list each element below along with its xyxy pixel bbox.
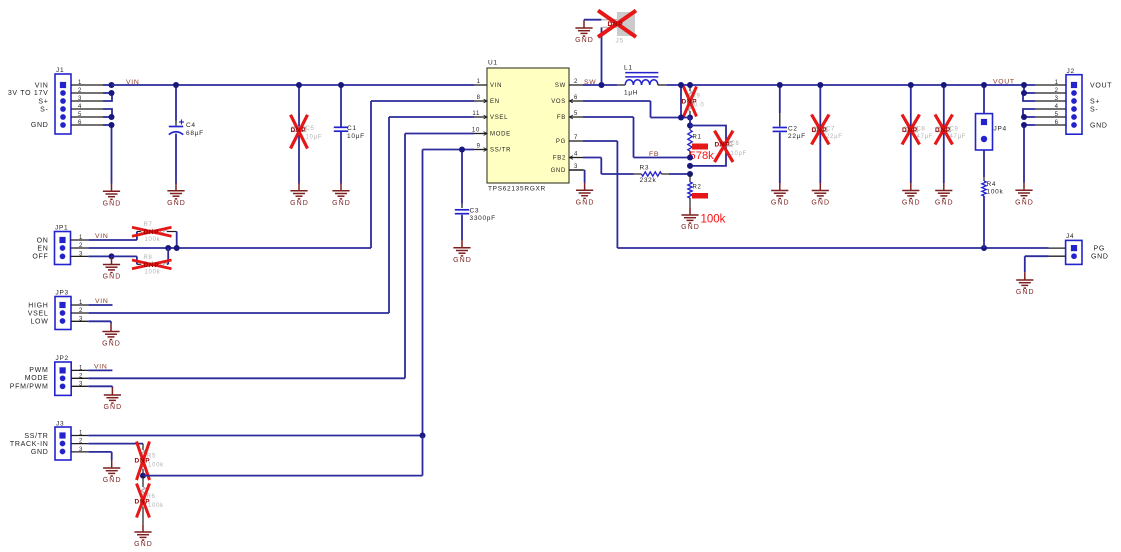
svg-text:R7: R7 xyxy=(144,222,153,228)
svg-text:S-: S- xyxy=(1090,107,1098,114)
connector J3 xyxy=(55,420,71,460)
wire SS/TR net J3 pin1 to U1 xyxy=(88,150,474,436)
svg-text:L1: L1 xyxy=(624,64,633,71)
JP2 pin labels xyxy=(10,367,49,391)
svg-text:GND: GND xyxy=(103,404,122,411)
wire MODE net JP2 pin2 to U1 xyxy=(88,134,474,379)
red value mask R2 xyxy=(692,193,708,199)
svg-text:DNP: DNP xyxy=(291,127,307,134)
wire JP3 pin1 VIN stub xyxy=(88,304,112,306)
svg-text:3V TO 17V: 3V TO 17V xyxy=(8,90,49,97)
DNP label R5 xyxy=(135,458,151,465)
svg-text:PG: PG xyxy=(556,139,566,145)
svg-text:SS/TR: SS/TR xyxy=(490,148,511,154)
svg-text:PG: PG xyxy=(1094,246,1106,253)
ground GND below C1 xyxy=(332,183,351,207)
svg-text:S+: S+ xyxy=(38,98,48,105)
wire JP1 pin3 to R8 xyxy=(112,256,137,264)
capacitor C7 DNP 22uF xyxy=(813,85,843,183)
wire J2 pin6 xyxy=(1024,124,1035,126)
svg-text:GND: GND xyxy=(332,200,351,207)
wire EN net JP1 pin2 to U1 xyxy=(88,101,474,248)
resistor R7 DNP 100k xyxy=(137,222,177,248)
junction dot C7 xyxy=(817,82,823,88)
U1 input arrows left pins xyxy=(484,99,487,151)
svg-text:GND: GND xyxy=(290,200,309,207)
red X over C9 xyxy=(935,115,953,145)
U1 input arrows right pins xyxy=(570,99,573,159)
resistor R9 DNP 0.0 xyxy=(688,85,705,118)
ground GND below C4 xyxy=(167,183,186,207)
svg-text:C5: C5 xyxy=(306,126,315,132)
svg-text:GND: GND xyxy=(681,224,700,231)
junction dot R4 bottom on PG line xyxy=(981,245,987,251)
ground GND below C8 xyxy=(902,183,921,207)
JP1 pin labels xyxy=(32,237,48,260)
wire U1 GND pin to ground xyxy=(569,170,585,183)
svg-text:VOUT: VOUT xyxy=(993,79,1015,86)
svg-text:100k: 100k xyxy=(701,214,726,226)
svg-text:J5: J5 xyxy=(616,38,624,45)
wire J1 pin1 to VIN rail xyxy=(103,84,112,86)
connector J1 xyxy=(55,67,71,134)
junction dot C4 on VIN rail xyxy=(173,82,179,88)
svg-text:PWM: PWM xyxy=(29,367,48,374)
svg-text:EN: EN xyxy=(37,245,48,252)
red X over C8 xyxy=(902,115,920,145)
svg-text:ON: ON xyxy=(37,237,49,244)
svg-text:FB2: FB2 xyxy=(553,156,566,162)
red X over R9 xyxy=(684,87,697,117)
resistor R8 DNP 100k xyxy=(137,248,168,276)
wire PG pin to J4 xyxy=(583,141,1049,248)
svg-text:C8: C8 xyxy=(917,126,926,132)
wire J3 pin2 to R5 xyxy=(88,443,143,445)
svg-text:GND: GND xyxy=(31,449,49,456)
svg-text:100k: 100k xyxy=(145,237,161,243)
J1 pin labels xyxy=(8,82,49,129)
wire J2 ground column xyxy=(1023,125,1025,183)
svg-text:GND: GND xyxy=(134,541,153,548)
net label VIN at JP3 xyxy=(95,298,108,305)
DNP label R9 xyxy=(682,99,698,106)
svg-text:C7: C7 xyxy=(826,126,835,132)
net label VIN xyxy=(126,79,139,86)
junction dot C3 tap xyxy=(459,147,465,153)
svg-text:GND: GND xyxy=(103,477,122,484)
svg-text:FB: FB xyxy=(649,151,659,158)
red X over C5 xyxy=(291,115,308,149)
red X over J5 xyxy=(598,11,636,38)
junction dot C5 on VIN rail xyxy=(296,82,302,88)
junction dot C1 on VIN rail xyxy=(338,82,344,88)
DNP label C7 xyxy=(812,127,828,134)
U1 right pin names xyxy=(551,83,566,174)
svg-text:J1: J1 xyxy=(56,67,64,74)
svg-text:C6: C6 xyxy=(731,141,740,147)
svg-text:R4: R4 xyxy=(987,181,997,188)
red X over R6 xyxy=(137,484,150,518)
wire J3 pin3 to ground xyxy=(88,452,111,460)
ground GND below J1 xyxy=(103,184,122,208)
red X over C7 xyxy=(812,115,830,145)
svg-text:VIN: VIN xyxy=(490,83,502,89)
inductor L1 1uH xyxy=(617,64,666,96)
DNP label C5 xyxy=(291,127,307,134)
svg-text:SS/TR: SS/TR xyxy=(24,433,48,440)
ground GND below R6 xyxy=(134,524,153,548)
svg-text:100k: 100k xyxy=(145,270,161,276)
svg-text:GND: GND xyxy=(167,200,186,207)
svg-text:SW: SW xyxy=(555,83,566,89)
value label 578k xyxy=(690,150,715,162)
ground GND at JP2 xyxy=(103,387,122,411)
ground GND below J2 xyxy=(1015,183,1034,207)
connector J2 xyxy=(1066,68,1082,134)
svg-text:JP2: JP2 xyxy=(56,355,69,362)
svg-text:VIN: VIN xyxy=(126,79,139,86)
J4 pin labels xyxy=(1091,246,1109,261)
svg-text:1µH: 1µH xyxy=(624,89,638,96)
capacitor C8 DNP 47uF xyxy=(904,85,934,183)
svg-text:47µF: 47µF xyxy=(950,134,967,140)
svg-text:GND: GND xyxy=(1090,123,1108,130)
svg-text:DNP: DNP xyxy=(682,99,698,106)
jumper JP1 xyxy=(55,225,71,265)
svg-text:10µF: 10µF xyxy=(306,135,323,141)
resistor R2 100k xyxy=(688,174,702,207)
J3 pin stubs and numbers xyxy=(71,431,88,453)
junction dots VOS xyxy=(678,82,684,121)
ground GND at J5 xyxy=(575,20,594,44)
svg-text:232k: 232k xyxy=(640,177,657,184)
wire JP2 pin3 to ground xyxy=(88,386,112,387)
connector J4 xyxy=(1066,233,1082,264)
junction dot SW node xyxy=(599,82,605,88)
wire SW node up to J5 xyxy=(601,27,603,85)
net label VOUT xyxy=(993,79,1015,86)
svg-text:C3: C3 xyxy=(470,207,480,214)
svg-text:FB: FB xyxy=(557,115,566,121)
svg-text:GND: GND xyxy=(575,37,594,44)
svg-text:GND: GND xyxy=(902,200,921,207)
junction dot C8 xyxy=(908,82,914,88)
U1 left pin names xyxy=(490,83,511,154)
svg-text:GND: GND xyxy=(453,257,472,264)
capacitor C3 3300pF xyxy=(455,207,496,240)
svg-text:J2: J2 xyxy=(1067,68,1075,75)
red value mask R1 xyxy=(692,144,708,150)
svg-text:C2: C2 xyxy=(788,125,798,132)
svg-text:22µF: 22µF xyxy=(788,133,806,140)
capacitor C6 DNP 10pF loop xyxy=(690,126,747,166)
svg-text:100k: 100k xyxy=(148,462,164,468)
svg-text:J4: J4 xyxy=(1066,233,1074,240)
svg-text:C9: C9 xyxy=(950,126,959,132)
net label FB xyxy=(649,151,659,158)
net label SW xyxy=(584,79,596,86)
wire JP3 pin3 to ground xyxy=(88,321,111,323)
wire JP2 pin1 VIN stub xyxy=(88,369,112,371)
svg-text:GND: GND xyxy=(811,200,830,207)
ground GND at J3 xyxy=(103,460,122,484)
svg-text:GND: GND xyxy=(576,199,595,206)
svg-text:GND: GND xyxy=(103,274,122,281)
jumper JP3 xyxy=(55,290,71,330)
svg-text:PFM/PWM: PFM/PWM xyxy=(10,384,49,391)
svg-text:HIGH: HIGH xyxy=(28,302,48,309)
capacitor C5 DNP 10uF xyxy=(292,85,322,184)
wire J1 pin3 up to pin2 net xyxy=(103,93,112,101)
svg-text:VOUT: VOUT xyxy=(1090,83,1112,90)
DNP label C8 xyxy=(902,127,918,134)
svg-text:DNP: DNP xyxy=(715,142,731,149)
junction dot C2 xyxy=(777,82,783,88)
red X over R8 xyxy=(132,260,172,269)
svg-text:100k: 100k xyxy=(987,189,1004,196)
wire R5 node to SS/TR riser xyxy=(143,436,423,476)
connector J5 DNP grey box xyxy=(602,12,635,45)
capacitor C9 DNP 47uF xyxy=(937,85,967,183)
ground GND at U1 pin3 xyxy=(576,183,595,207)
J1 pin stubs and numbers xyxy=(71,80,103,126)
svg-text:JP4: JP4 xyxy=(994,126,1007,133)
junction dots J1 xyxy=(109,82,115,128)
junction dot SS/TR riser xyxy=(420,433,426,439)
ground GND below C9 xyxy=(935,183,954,207)
JP3 pin labels xyxy=(28,302,49,325)
junction dot JP1 pin3 xyxy=(109,253,115,259)
svg-text:DNP: DNP xyxy=(812,127,828,134)
svg-text:TPS62135RGXR: TPS62135RGXR xyxy=(488,186,546,193)
svg-text:R8: R8 xyxy=(144,255,153,261)
J2 pin labels xyxy=(1090,83,1112,130)
ground GND at JP1 xyxy=(103,257,122,281)
value label 100k xyxy=(701,214,726,226)
svg-text:DNP: DNP xyxy=(144,229,160,236)
svg-text:S-: S- xyxy=(40,106,48,113)
svg-text:VIN: VIN xyxy=(94,363,107,370)
junction dots EN node xyxy=(165,245,180,251)
svg-text:GND: GND xyxy=(935,200,954,207)
JP3 pin stubs and numbers xyxy=(71,300,88,322)
J3 pin labels xyxy=(10,433,49,456)
svg-text:DNP: DNP xyxy=(608,21,624,28)
wire J4 pin2 to ground xyxy=(1025,256,1049,272)
wire J1 pin2 xyxy=(103,92,112,94)
ground GND below C5 xyxy=(290,183,309,207)
svg-text:VIN: VIN xyxy=(95,298,108,305)
jumper JP4 xyxy=(976,85,1007,150)
svg-text:TRACK-IN: TRACK-IN xyxy=(10,441,49,448)
svg-text:VOS: VOS xyxy=(551,99,566,105)
wire VOUT rail xyxy=(666,84,1035,86)
net label VIN at JP1 xyxy=(95,233,108,240)
wire JP1 pin3 to ground xyxy=(88,255,111,257)
svg-text:3300pF: 3300pF xyxy=(470,215,496,222)
junction dot C6 bottom xyxy=(687,163,693,169)
svg-text:GND: GND xyxy=(1016,289,1035,296)
svg-text:100k: 100k xyxy=(148,503,164,509)
resistor R4 100k xyxy=(982,150,1004,248)
svg-text:LOW: LOW xyxy=(30,318,48,325)
wire J2 pin2 xyxy=(1024,85,1035,93)
junction dots J2 xyxy=(1021,82,1027,128)
svg-text:GND: GND xyxy=(31,122,49,129)
resistor R1 578k xyxy=(688,118,702,158)
junction dots R9 xyxy=(687,82,693,121)
svg-text:JP1: JP1 xyxy=(55,225,68,232)
DNP label R7 xyxy=(144,229,160,236)
wire VSEL net JP3 pin2 to U1 xyxy=(88,117,474,313)
DNP label J5 xyxy=(608,21,624,28)
DNP label R8 xyxy=(144,262,160,269)
resistor R3 232k xyxy=(634,164,691,184)
wire J2 pin3 up xyxy=(1023,93,1035,101)
svg-text:JP3: JP3 xyxy=(56,290,69,297)
wire J2 pin5 xyxy=(1024,116,1035,118)
svg-text:R1: R1 xyxy=(693,135,702,141)
svg-text:U1: U1 xyxy=(488,60,498,67)
resistor R5 DNP 100k xyxy=(141,444,164,476)
ground GND below R2 xyxy=(681,207,700,231)
svg-text:GND: GND xyxy=(1091,254,1109,261)
junction dot C9 xyxy=(941,82,947,88)
red X over R5 xyxy=(137,442,150,481)
resistor R6 DNP 100k xyxy=(141,476,164,525)
wire J2 pin4 down xyxy=(1023,109,1035,117)
svg-text:S+: S+ xyxy=(1090,99,1100,106)
wire FB pin to divider xyxy=(583,117,690,158)
svg-text:47µF: 47µF xyxy=(917,134,934,140)
svg-text:EN: EN xyxy=(490,99,500,105)
wire SS/TR to C3 xyxy=(461,150,463,209)
U1 right pin stubs xyxy=(569,79,583,170)
capacitor C4 68uF xyxy=(169,85,204,184)
svg-text:GND: GND xyxy=(102,341,121,348)
svg-text:C1: C1 xyxy=(347,125,357,132)
wire J1 ground column xyxy=(111,125,113,184)
svg-text:DNP: DNP xyxy=(135,458,151,465)
svg-text:VIN: VIN xyxy=(95,233,108,240)
svg-text:10pF: 10pF xyxy=(731,151,747,157)
capacitor C2 22uF xyxy=(773,85,806,183)
svg-text:MODE: MODE xyxy=(25,375,49,382)
red X over C6 xyxy=(715,131,734,162)
svg-text:VSEL: VSEL xyxy=(28,310,49,317)
jumper JP2 xyxy=(55,355,71,395)
wire FB2 pin to R3 xyxy=(583,158,634,175)
ground GND below C7 xyxy=(811,183,830,207)
svg-text:J3: J3 xyxy=(56,420,64,427)
wire J5 pin1 to ground xyxy=(584,19,602,22)
svg-text:VSEL: VSEL xyxy=(490,115,508,121)
svg-text:GND: GND xyxy=(551,168,566,174)
svg-text:OFF: OFF xyxy=(32,254,48,261)
DNP label C9 xyxy=(935,127,951,134)
svg-text:DNP: DNP xyxy=(935,127,951,134)
junction dots R1 xyxy=(687,123,693,161)
U1 left pin stubs xyxy=(472,79,487,150)
DNP label C6 xyxy=(715,142,731,149)
wire JP1 pin1 to R7 xyxy=(88,232,137,241)
svg-text:GND: GND xyxy=(103,200,122,207)
wire J1 pin6 xyxy=(103,124,112,126)
svg-text:VIN: VIN xyxy=(35,82,49,89)
svg-text:R3: R3 xyxy=(640,164,650,171)
J4 pin stubs xyxy=(1049,248,1066,256)
JP1 pin stubs and numbers xyxy=(71,235,89,257)
JP2 pin stubs and numbers xyxy=(71,365,88,387)
svg-text:R2: R2 xyxy=(693,185,702,191)
svg-text:22µF: 22µF xyxy=(826,134,843,140)
svg-text:DNP: DNP xyxy=(135,499,151,506)
svg-text:C4: C4 xyxy=(186,122,196,129)
svg-text:DNP: DNP xyxy=(902,127,918,134)
junction dot JP4 xyxy=(981,82,987,88)
wire VIN rail xyxy=(112,84,475,86)
svg-text:MODE: MODE xyxy=(490,132,511,138)
svg-text:10µF: 10µF xyxy=(347,133,365,140)
svg-text:GND: GND xyxy=(771,200,790,207)
svg-text:DNP: DNP xyxy=(144,262,160,269)
svg-text:GND: GND xyxy=(1015,199,1034,206)
junction dot R5 R6 node xyxy=(140,473,146,479)
wire VOS pin to output xyxy=(583,85,690,118)
DNP label R6 xyxy=(135,499,151,506)
wire J1 pin4 down to pin5 net xyxy=(103,109,112,117)
ground GND below C3 xyxy=(453,240,472,264)
ground GND below C2 xyxy=(771,183,790,207)
svg-text:68µF: 68µF xyxy=(186,130,204,137)
op-amp U1 TPS62135RGXR body xyxy=(487,60,569,193)
net label VIN at JP2 xyxy=(94,363,107,370)
ground GND at JP3 xyxy=(102,324,121,348)
wire SW pin to L1 xyxy=(583,84,617,86)
ground GND at J4 xyxy=(1016,272,1035,296)
capacitor C1 10uF xyxy=(334,85,365,184)
wire J1 pin5 xyxy=(103,116,112,118)
svg-text:578k: 578k xyxy=(690,150,715,162)
junction dot R3 right xyxy=(687,171,693,177)
red X over R7 xyxy=(132,227,172,236)
J2 pin stubs and numbers xyxy=(1035,80,1066,126)
